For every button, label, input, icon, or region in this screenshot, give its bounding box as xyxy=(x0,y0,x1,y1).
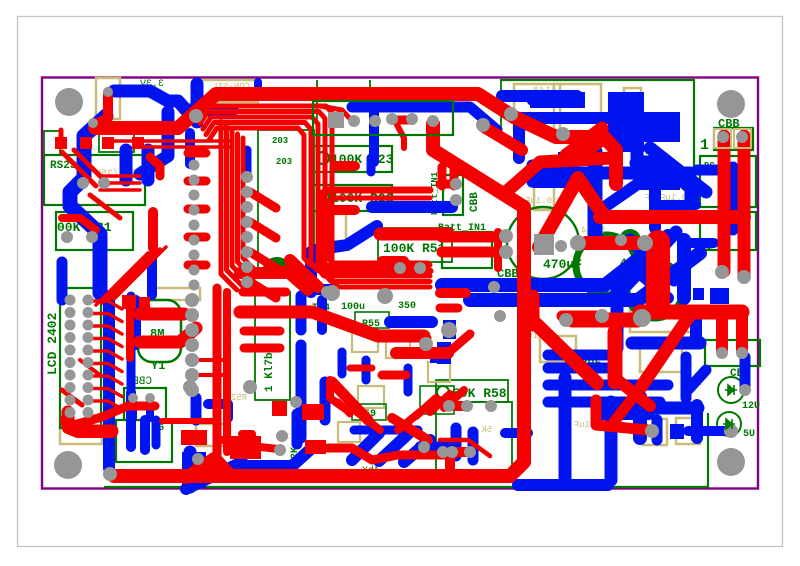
wire blue hb2 xyxy=(420,442,452,453)
wire blue cbbv1 xyxy=(129,400,137,418)
wire red bar cap2 xyxy=(572,313,638,328)
wire blue L3 xyxy=(57,262,68,300)
capacitor outline C19 xyxy=(643,419,667,445)
wire blue botv2 xyxy=(605,402,618,480)
pad p28 xyxy=(443,400,455,412)
wire blue TL6 xyxy=(185,133,195,164)
capacitor C470 big xyxy=(576,235,636,295)
wire red bus thick2 xyxy=(223,292,231,452)
wire blue vert c xyxy=(305,252,317,292)
wire red dipbar4 xyxy=(188,261,206,270)
wire red bot r xyxy=(596,400,648,430)
capacitor outline C21 xyxy=(148,288,200,300)
pad c43 xyxy=(185,383,199,397)
wire red blob c xyxy=(290,260,318,287)
pad frame k10 xyxy=(734,129,751,148)
wire blue buzz2 xyxy=(140,420,150,450)
battery outline xyxy=(442,232,492,268)
wire blue x131b xyxy=(127,348,136,388)
wire red sqt1 xyxy=(80,137,92,149)
wire blue mid3 xyxy=(443,320,456,339)
wire red sqt0 xyxy=(55,137,67,149)
wire red f5 xyxy=(410,335,428,342)
wire blue TR2 xyxy=(515,112,608,124)
wire red r23bar xyxy=(335,161,355,171)
wire blue f1 xyxy=(338,352,347,374)
wire red r31v xyxy=(148,212,158,248)
wire red elbow bl xyxy=(185,458,214,478)
wire red t7 xyxy=(574,140,604,162)
pad p18 xyxy=(716,347,728,359)
wire blue band402 xyxy=(548,397,660,408)
wire red mrstub1 xyxy=(430,394,450,412)
wire blue vert c2 xyxy=(296,296,307,330)
wire blue diag2 tr xyxy=(650,148,706,192)
wire blue chev1 xyxy=(630,240,674,280)
board silk top edge xyxy=(500,80,694,207)
wire blue stub258 xyxy=(254,82,262,96)
svg-text:203: 203 xyxy=(272,136,288,146)
wire red bars440 xyxy=(440,440,490,456)
wire red lcd8 xyxy=(90,401,122,409)
capacitor CBB3 outline xyxy=(714,128,753,150)
wire red xtal2 xyxy=(140,328,196,342)
wire red rsd3 xyxy=(90,195,120,218)
transistor half-disc 2 xyxy=(619,229,641,240)
wire blue TR4 xyxy=(631,138,644,172)
wire red r51bar xyxy=(382,256,404,266)
wire red f6 xyxy=(338,402,350,414)
wire red rs1 xyxy=(100,181,140,185)
connector DC_IN2 outline xyxy=(700,212,756,250)
wire red rs0 xyxy=(100,174,140,178)
pad c28 xyxy=(83,357,94,368)
wire red xtal1 xyxy=(140,308,184,321)
wire red bl4 xyxy=(398,412,420,430)
wire red fanl0 xyxy=(96,253,148,305)
wire red r51w xyxy=(406,261,420,268)
wire blue RB4 xyxy=(686,370,706,392)
wire blue elbow b xyxy=(240,447,313,466)
wire red bar cap1 xyxy=(586,236,638,250)
capacitor outline C22 xyxy=(534,180,554,210)
wire red csq3 xyxy=(272,401,287,416)
svg-text:Y1: Y1 xyxy=(151,359,165,373)
pad p38 xyxy=(103,467,117,481)
pad p9 xyxy=(103,87,113,97)
wire red thin pair b xyxy=(136,145,232,149)
wire red barL1 xyxy=(244,327,280,336)
svg-text:CBB: CBB xyxy=(469,192,481,212)
wire red r58bar xyxy=(452,401,466,411)
pad c23 xyxy=(65,332,76,343)
wire blue botband xyxy=(518,479,608,491)
wire blue sq r3 xyxy=(710,288,729,304)
pad p31 xyxy=(446,446,458,458)
wire red hook xyxy=(150,157,160,176)
wire red sqt3 xyxy=(132,137,144,149)
pad c37 xyxy=(185,293,199,307)
wire blue blob BL xyxy=(182,452,206,488)
wire blue v519 xyxy=(513,118,525,158)
wire blue hb xyxy=(354,426,418,435)
wire blue TR1 xyxy=(502,90,577,102)
silk line x501 xyxy=(500,80,502,136)
wire blue RB5 xyxy=(632,402,698,415)
wire red busnet4 xyxy=(209,128,430,265)
wire blue pad stub xyxy=(369,113,379,162)
pad c30 xyxy=(83,370,94,381)
wire red barL2 xyxy=(244,344,280,353)
svg-text:1uF: 1uF xyxy=(574,420,590,430)
pad p35 xyxy=(290,396,302,408)
pad p7 xyxy=(348,115,360,127)
wire red v498 xyxy=(494,232,502,268)
wire red fanl1 xyxy=(102,251,154,303)
resistor outline k8 xyxy=(420,386,454,414)
capacitor outline k2 xyxy=(386,338,410,358)
pad p59 xyxy=(494,310,506,322)
resistor R31 outline xyxy=(56,212,133,250)
wire red sq x2 xyxy=(139,297,150,308)
pad p22 xyxy=(645,424,659,438)
pad c31 xyxy=(65,382,76,393)
wire blue RB6 xyxy=(691,405,703,438)
pad p15 xyxy=(595,309,609,323)
svg-text:12U: 12U xyxy=(742,401,760,412)
diode symbol 12V xyxy=(725,385,737,395)
wire blue v617 xyxy=(611,285,624,348)
pad square top xyxy=(328,112,344,128)
pad p36 xyxy=(276,430,288,442)
wire blue TR7 xyxy=(697,165,738,176)
diode D3 outline xyxy=(705,340,760,366)
wire blue buzz1 xyxy=(126,420,136,447)
wire blue v686 xyxy=(681,357,692,398)
wire blue f3 xyxy=(362,360,371,380)
wire blue R22 long xyxy=(372,201,452,213)
pad p21 xyxy=(724,424,738,438)
resistor outline k6 xyxy=(355,312,389,328)
wire blue chevb2 xyxy=(379,434,408,461)
svg-text:5K: 5K xyxy=(481,425,492,435)
wire blue buzzdn xyxy=(184,452,197,487)
wire blue crys xyxy=(127,296,136,360)
pad c39 xyxy=(185,323,199,337)
pad c35 xyxy=(65,407,76,418)
svg-text:LCD 2402: LCD 2402 xyxy=(45,312,60,375)
buzzer outline xyxy=(116,420,172,462)
wire red csq1 xyxy=(181,430,207,445)
capacitor outline C17 xyxy=(640,346,682,372)
wire blue v600 xyxy=(588,152,603,238)
wire blue band173 xyxy=(531,167,690,180)
pad p14 xyxy=(633,309,651,327)
pad p49 xyxy=(77,177,89,189)
capacitor outline k3 xyxy=(358,386,384,408)
pad p30 xyxy=(485,400,497,412)
capacitor outline C5 xyxy=(624,88,641,114)
resistor R23 outline xyxy=(312,146,392,172)
pad p39 xyxy=(192,453,204,465)
pad p55 xyxy=(615,234,627,246)
wire red diagc2 xyxy=(392,418,428,440)
wire red rsd1 xyxy=(62,152,96,186)
wire blue TL1 xyxy=(114,91,232,110)
capacitor outline k5 xyxy=(428,362,450,382)
wire red zig xyxy=(70,406,155,426)
svg-text:203: 203 xyxy=(276,157,292,167)
wire blue 7812a xyxy=(532,95,560,106)
resistor R58b outline xyxy=(436,402,512,470)
wire blue vert c3 xyxy=(296,345,307,438)
wire red r58e xyxy=(450,452,470,468)
wire red lcd2 xyxy=(90,326,122,334)
wire blue r640a xyxy=(640,112,680,142)
capacitor 470uF outline xyxy=(507,207,579,279)
wire red stubx1 xyxy=(192,358,226,362)
pad c3 xyxy=(189,205,200,216)
wire red rsd2 xyxy=(74,150,108,184)
board outline xyxy=(42,78,758,489)
IC U2 outline xyxy=(258,130,314,272)
wire blue mid4 xyxy=(437,342,451,364)
wire blue L4 xyxy=(147,256,157,295)
wire red mr3 xyxy=(382,371,406,380)
pad p32 xyxy=(464,446,476,458)
wire red bar bm xyxy=(562,311,598,322)
wire red diag r6 xyxy=(614,387,641,422)
pad p57 xyxy=(128,393,138,403)
pad c17 xyxy=(65,295,76,306)
wire blue x136 xyxy=(131,300,141,345)
pad p24 xyxy=(499,245,513,259)
wire red dipbar1 xyxy=(188,177,206,186)
wire blue diag mr xyxy=(620,232,676,292)
diode outline D1 xyxy=(514,84,560,130)
wire red r22bar xyxy=(335,205,355,215)
wire red r31a xyxy=(62,218,96,230)
wire red bus thick xyxy=(217,288,232,474)
pad c16 xyxy=(241,276,253,288)
wire red xtalv xyxy=(126,300,134,358)
pad c20 xyxy=(83,307,94,318)
pad p47 xyxy=(394,262,406,274)
resistor outline k7 xyxy=(352,404,386,420)
wire red bb1 xyxy=(440,304,458,313)
wire blue RB3 xyxy=(740,357,751,390)
pad p23 xyxy=(499,229,513,243)
wire blue TR8 xyxy=(728,167,739,230)
wire blue chevb1 xyxy=(352,433,379,460)
wire red tpad1 xyxy=(96,92,108,124)
pad c26 xyxy=(83,345,94,356)
wire red busnet0 xyxy=(197,106,430,287)
wire red busleft4 xyxy=(243,138,259,274)
pad c27 xyxy=(65,357,76,368)
wire red t2 xyxy=(394,116,412,125)
pad p8 xyxy=(369,115,381,127)
pad c22 xyxy=(83,320,94,331)
pad c19 xyxy=(65,307,76,318)
wire blue v654 xyxy=(649,190,661,228)
wire red m1 xyxy=(62,390,82,405)
pad p2 xyxy=(476,118,490,132)
wire blue RB1 xyxy=(632,337,700,350)
wire red elbow d2 xyxy=(506,158,612,192)
wire red lcd5 xyxy=(90,364,122,372)
wire red stub1 xyxy=(250,222,276,238)
wire blue mids2 xyxy=(208,404,228,418)
pad p27 xyxy=(450,194,462,206)
wire blue TL5 xyxy=(191,84,204,122)
diode symbol 5V xyxy=(723,419,735,429)
pad p26 xyxy=(450,178,462,190)
wire blue band385 xyxy=(548,380,668,391)
pad c1 xyxy=(189,175,200,186)
wire blue cv2 xyxy=(320,382,331,420)
wire blue 7812c xyxy=(532,177,555,188)
wire red stub2 xyxy=(250,252,276,268)
wire blue r640b xyxy=(640,168,680,190)
silk line c xyxy=(289,292,291,398)
pad frame k9 xyxy=(714,129,731,148)
wire red stub0 xyxy=(250,192,276,208)
pad c29 xyxy=(65,370,76,381)
pad p3 xyxy=(556,127,570,141)
pad p11 xyxy=(570,235,586,251)
pad p34 xyxy=(243,380,257,394)
pad p6 xyxy=(427,115,439,127)
wire red diag 615 xyxy=(615,378,650,406)
wire red t4 xyxy=(396,123,404,148)
wire blue sq r xyxy=(670,424,684,439)
pot outline xyxy=(255,292,290,400)
wire red r58f xyxy=(442,451,448,459)
wire blue bus top xyxy=(352,107,497,130)
pad c15 xyxy=(241,261,253,273)
wire red battv1 xyxy=(438,167,447,186)
wire red lambda xyxy=(539,178,602,247)
svg-text:5U: 5U xyxy=(743,429,755,440)
wire red blob bl2 xyxy=(193,462,223,480)
wire red vert 533 xyxy=(527,296,540,325)
pad p46 xyxy=(441,322,457,338)
wire red busnet3 xyxy=(206,123,430,271)
wire red csq5 xyxy=(305,440,326,454)
pad c11 xyxy=(241,201,253,213)
pad p10 xyxy=(88,118,98,128)
pad c34 xyxy=(83,395,94,406)
wire red ok1 xyxy=(440,288,466,298)
wire red mrstub2 xyxy=(444,390,464,408)
pad c14 xyxy=(241,246,253,258)
pad p33 xyxy=(183,380,197,394)
board silk bottom edge xyxy=(104,413,708,487)
wire red stub3 xyxy=(250,282,276,298)
wire red vert R4b xyxy=(738,136,751,276)
wire red f4 xyxy=(350,365,372,372)
wire red busleft3 xyxy=(238,134,254,278)
pad p40 xyxy=(274,444,286,456)
pad c40 xyxy=(185,338,199,352)
wire red lcd4 xyxy=(90,351,122,359)
wire blue mid2 xyxy=(430,348,446,363)
wire red r51band xyxy=(380,228,448,241)
wire red t6 xyxy=(566,128,602,155)
wire blue diag BL xyxy=(186,462,242,489)
wire blue vert c4 xyxy=(317,300,327,330)
wire blue bar533 xyxy=(534,176,570,188)
pad p16 xyxy=(715,265,729,279)
wire red rs2 xyxy=(100,188,140,192)
wire red sq x1 xyxy=(122,295,136,309)
pad c36 xyxy=(83,407,94,418)
wire red csq4 xyxy=(302,404,324,420)
pad c9 xyxy=(241,171,253,183)
wire blue L1 xyxy=(70,116,106,293)
wire red top band thick xyxy=(216,87,478,101)
svg-text:350: 350 xyxy=(398,301,416,312)
wire blue r558 xyxy=(558,152,575,164)
pad c7 xyxy=(189,265,200,276)
wire blue diagc xyxy=(315,226,377,250)
pad p58 xyxy=(145,393,155,403)
pad p45 xyxy=(419,337,433,351)
crystal Y1 outline xyxy=(138,300,181,362)
wire red busleft2 xyxy=(232,130,248,282)
regulator outline 7812 xyxy=(554,84,601,140)
pad p43 xyxy=(324,285,340,301)
wire red lcd6 xyxy=(90,376,122,384)
wire red mr1 xyxy=(396,347,448,359)
connector DC_IN outline xyxy=(700,156,756,207)
capacitor outline C20 xyxy=(676,418,700,444)
wire red t3 xyxy=(320,106,354,123)
wire blue band2 xyxy=(470,253,700,300)
wire red dipbar0 xyxy=(188,149,206,158)
pad c13 xyxy=(241,231,253,243)
LED outline a xyxy=(44,131,60,155)
pad c12 xyxy=(241,216,253,228)
pad c38 xyxy=(185,308,199,322)
wire blue sq c xyxy=(314,284,338,295)
wire red t5 xyxy=(484,127,522,150)
capacitor outline C1 xyxy=(96,78,120,119)
wire blue chev2 xyxy=(634,268,668,298)
pad p54 xyxy=(736,131,748,143)
pad p5 xyxy=(406,113,418,125)
pad c41 xyxy=(185,353,199,367)
pad p25 xyxy=(488,281,500,293)
svg-text:1 Kl7b: 1 Kl7b xyxy=(264,352,276,392)
silk line d xyxy=(519,340,521,465)
resistor outline R54 xyxy=(60,428,102,444)
pad p52 xyxy=(86,231,98,243)
wire blue mid1 xyxy=(390,316,432,328)
wire blue 7812b xyxy=(532,160,558,171)
pad p0 xyxy=(189,109,203,123)
pad p17 xyxy=(737,270,751,284)
LED outline b xyxy=(99,131,134,152)
svg-text:R52: R52 xyxy=(231,393,247,403)
svg-text:1: 1 xyxy=(700,137,709,154)
pad c5 xyxy=(189,235,200,246)
wire red sqt2 xyxy=(102,137,114,149)
wire blue sq r2 xyxy=(693,288,704,300)
wire blue RB2 xyxy=(690,312,702,340)
capacitor pads C12 xyxy=(640,163,662,187)
